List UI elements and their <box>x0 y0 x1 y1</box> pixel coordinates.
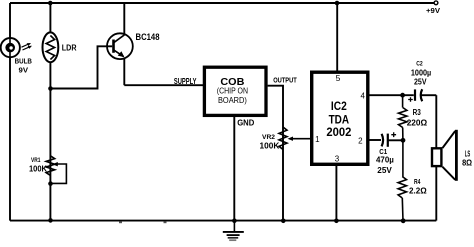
svg-text:(CHIP ON: (CHIP ON <box>217 87 248 96</box>
svg-text:5: 5 <box>336 73 341 83</box>
svg-text:25V: 25V <box>377 165 392 175</box>
svg-text:LDR: LDR <box>62 44 77 53</box>
svg-text:SUPPLY: SUPPLY <box>174 76 197 86</box>
svg-text:25V: 25V <box>414 78 427 87</box>
svg-text:2: 2 <box>358 137 363 146</box>
svg-text:BC148: BC148 <box>136 32 160 42</box>
svg-text:LS: LS <box>465 150 471 159</box>
svg-text:100K: 100K <box>260 140 281 150</box>
svg-text:3: 3 <box>335 155 340 164</box>
svg-text:9V: 9V <box>19 65 29 74</box>
svg-text:BOARD): BOARD) <box>218 96 247 105</box>
svg-text:OUTPUT: OUTPUT <box>273 76 297 85</box>
svg-text:IC2: IC2 <box>331 99 347 113</box>
svg-text:+9V: +9V <box>426 6 440 15</box>
svg-text:8Ω: 8Ω <box>462 158 473 167</box>
svg-text:R4: R4 <box>414 179 420 186</box>
svg-text:GND: GND <box>237 117 254 127</box>
svg-text:100K: 100K <box>29 163 48 173</box>
svg-text:470µ: 470µ <box>376 156 394 165</box>
svg-text:R3: R3 <box>413 108 422 117</box>
svg-text:2002: 2002 <box>326 125 351 139</box>
svg-text:4: 4 <box>360 91 365 100</box>
svg-text:1: 1 <box>315 135 320 144</box>
svg-text:1000µ: 1000µ <box>411 67 431 77</box>
svg-text:2.2Ω: 2.2Ω <box>409 186 427 195</box>
svg-text:220Ω: 220Ω <box>407 118 428 128</box>
svg-text:BULB: BULB <box>15 56 32 65</box>
